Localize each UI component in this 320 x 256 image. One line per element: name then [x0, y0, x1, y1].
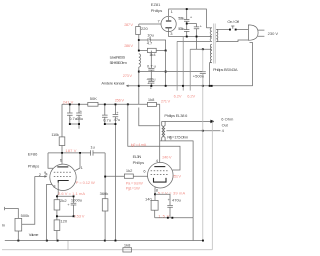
svg-text:Philips: Philips	[151, 8, 163, 13]
svg-text:EZ81: EZ81	[151, 2, 161, 7]
svg-text:360k: 360k	[100, 191, 109, 196]
svg-text:500k: 500k	[21, 213, 30, 218]
svg-text:500u: 500u	[178, 26, 184, 31]
svg-text:6 Ohm: 6 Ohm	[221, 116, 234, 121]
svg-text:P = 0.12 W: P = 0.12 W	[76, 180, 95, 185]
svg-text:271 V: 271 V	[161, 98, 171, 103]
svg-text:68u: 68u	[76, 116, 83, 121]
svg-text:EL3N: EL3N	[133, 154, 142, 159]
svg-text:EF86: EF86	[28, 152, 38, 157]
svg-text:1k8: 1k8	[124, 242, 131, 247]
svg-text:On / Off: On / Off	[227, 19, 239, 24]
svg-text:Ig2 = 4 mA: Ig2 = 4 mA	[131, 142, 147, 147]
svg-text:Volume: Volume	[29, 232, 39, 237]
svg-text:0.7u: 0.7u	[103, 118, 111, 123]
svg-text:In: In	[2, 222, 5, 227]
svg-text:Philips EL38 6: Philips EL38 6	[164, 113, 188, 118]
svg-text:Philips BS043A: Philips BS043A	[213, 67, 238, 72]
svg-text:Andere kanaal: Andere kanaal	[101, 80, 124, 85]
svg-text:6.2V: 6.2V	[174, 93, 182, 98]
svg-text:2.6 V = 1.1 mA: 2.6 V = 1.1 mA	[58, 191, 85, 196]
svg-text:256 V: 256 V	[115, 97, 125, 102]
svg-text:Lowe NES S: Lowe NES S	[110, 54, 126, 59]
svg-text:50K: 50K	[90, 96, 97, 101]
svg-text:241 V: 241 V	[63, 100, 74, 105]
svg-text:230 V: 230 V	[268, 31, 279, 36]
svg-text:1k4: 1k4	[149, 52, 156, 57]
svg-text:+500u: +500u	[193, 74, 204, 79]
svg-text:120: 120	[60, 218, 67, 223]
svg-text:0.7 u: 0.7 u	[147, 63, 156, 68]
svg-text:1k2: 1k2	[126, 168, 133, 173]
svg-text:1000u: 1000u	[71, 198, 82, 203]
svg-text:1k8: 1k8	[148, 97, 155, 102]
svg-text:470u: 470u	[172, 198, 181, 203]
svg-text:Philips: Philips	[133, 160, 145, 165]
svg-text:110k: 110k	[51, 132, 59, 137]
svg-text:286 V: 286 V	[124, 43, 133, 48]
svg-text:6.2V: 6.2V	[187, 93, 195, 98]
svg-text:Philips: Philips	[28, 164, 40, 169]
svg-text:50H / 900 Ohm: 50H / 900 Ohm	[110, 60, 128, 65]
svg-text:273 V: 273 V	[123, 73, 133, 78]
svg-text:1u: 1u	[90, 145, 94, 150]
svg-text:251 V: 251 V	[172, 173, 181, 178]
svg-text:187 V: 187 V	[65, 148, 76, 153]
svg-text:287 V: 287 V	[124, 22, 133, 27]
svg-text:47u: 47u	[114, 117, 121, 122]
svg-text:Pg1 = 1 W: Pg1 = 1 W	[126, 186, 140, 191]
svg-text:4.7: 4.7	[147, 41, 153, 46]
svg-text:240 V: 240 V	[162, 154, 172, 159]
svg-text:R(l) = 17.5 Ohm: R(l) = 17.5 Ohm	[167, 135, 189, 140]
svg-text:500u: 500u	[178, 15, 184, 20]
svg-text:Out: Out	[222, 123, 229, 128]
svg-text:0.53 V: 0.53 V	[74, 213, 85, 218]
svg-text:140: 140	[145, 196, 152, 201]
svg-text:2k2: 2k2	[60, 198, 67, 203]
svg-text:220: 220	[141, 26, 148, 31]
